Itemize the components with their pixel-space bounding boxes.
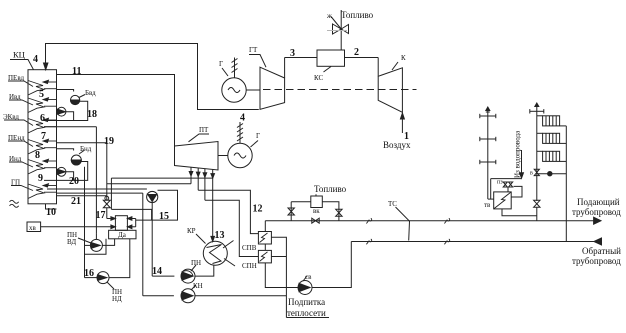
svg-text:Топливо: Топливо — [341, 10, 374, 20]
svg-text:12: 12 — [253, 204, 263, 215]
svg-text:4: 4 — [240, 113, 245, 124]
svg-text:9: 9 — [38, 173, 43, 184]
svg-text:СПН: СПН — [242, 262, 257, 270]
svg-text:Бвд: Бвд — [85, 89, 96, 97]
svg-text:16: 16 — [84, 268, 94, 279]
svg-text:в: в — [530, 171, 533, 177]
svg-text:ГТ: ГТ — [249, 46, 258, 54]
svg-text:Подающий: Подающий — [577, 197, 620, 207]
svg-text:14: 14 — [152, 266, 162, 277]
svg-text:ж: ж — [326, 12, 332, 20]
svg-text:Топливо: Топливо — [314, 184, 347, 194]
svg-text:18: 18 — [87, 109, 97, 120]
svg-text:пз: пз — [497, 180, 503, 186]
svg-text:Из водопровода: Из водопровода — [514, 130, 522, 178]
svg-text:КР: КР — [187, 227, 196, 235]
svg-text:ПЕнд: ПЕнд — [8, 134, 25, 142]
svg-text:Бнд: Бнд — [80, 145, 92, 153]
svg-text:6: 6 — [40, 113, 45, 124]
svg-text:Да: Да — [118, 231, 127, 239]
svg-text:5: 5 — [39, 89, 44, 100]
svg-text:КН: КН — [193, 282, 203, 290]
svg-text:4: 4 — [33, 54, 38, 65]
svg-text:КЦ: КЦ — [13, 50, 25, 60]
svg-text:НД: НД — [112, 295, 122, 303]
svg-text:15: 15 — [159, 211, 169, 222]
svg-text:2: 2 — [354, 47, 359, 58]
svg-text:ЭКвд: ЭКвд — [3, 113, 19, 121]
svg-text:теплосети: теплосети — [287, 308, 326, 318]
svg-text:3: 3 — [290, 48, 295, 59]
svg-text:8: 8 — [35, 150, 40, 161]
svg-text:КС: КС — [314, 74, 323, 82]
svg-text:трубопровод: трубопровод — [572, 256, 621, 266]
svg-text:20: 20 — [69, 176, 79, 187]
svg-text:21: 21 — [71, 196, 81, 207]
svg-text:хв: хв — [29, 224, 37, 232]
svg-text:ПТ: ПТ — [199, 126, 209, 134]
svg-text:св: св — [305, 273, 312, 281]
svg-text:трубопровод: трубопровод — [572, 207, 621, 217]
svg-text:ТС: ТС — [388, 200, 397, 208]
svg-text:10: 10 — [46, 207, 56, 218]
svg-text:Ивд: Ивд — [9, 93, 21, 101]
svg-text:17: 17 — [96, 210, 106, 221]
svg-text:7: 7 — [41, 131, 46, 142]
svg-text:Г: Г — [219, 60, 223, 68]
svg-text:СПВ: СПВ — [242, 244, 257, 252]
svg-text:11: 11 — [72, 66, 81, 77]
svg-text:19: 19 — [104, 136, 114, 147]
svg-text:Г: Г — [256, 132, 260, 140]
svg-text:Инд: Инд — [9, 155, 22, 163]
svg-text:13: 13 — [215, 230, 225, 241]
svg-text:К: К — [401, 54, 406, 62]
svg-text:ПЕвд: ПЕвд — [8, 74, 24, 82]
svg-text:Подпитка: Подпитка — [288, 297, 325, 307]
svg-text:ПН: ПН — [191, 259, 201, 267]
svg-text:тв: тв — [484, 201, 491, 209]
svg-text:Воздух: Воздух — [383, 140, 411, 150]
svg-text:вк: вк — [313, 207, 320, 215]
svg-text:ВД: ВД — [67, 238, 76, 246]
svg-text:ГП: ГП — [11, 179, 20, 187]
svg-text:Обратный: Обратный — [582, 246, 621, 256]
